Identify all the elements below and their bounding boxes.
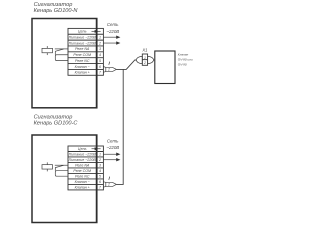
svg-text:Клапан −: Клапан − bbox=[75, 180, 90, 184]
box edge through terminal block bbox=[96, 135, 98, 223]
svg-text:Реле NA: Реле NA bbox=[75, 164, 90, 168]
svg-text:4: 4 bbox=[99, 169, 101, 173]
svg-text:1: 1 bbox=[144, 56, 146, 60]
terminal block XT (GD100-C) bbox=[68, 146, 103, 190]
svg-text:Питание ~220В: Питание ~220В bbox=[69, 153, 97, 157]
wire mains L2 bbox=[103, 159, 117, 161]
box edge through terminal block bbox=[96, 19, 98, 108]
svg-text:2: 2 bbox=[98, 158, 101, 162]
valve box GV-80/GV-90 bbox=[155, 51, 175, 84]
title GD100-C bbox=[34, 114, 79, 126]
svg-text:5: 5 bbox=[99, 59, 101, 63]
wire mains L1 bbox=[103, 36, 117, 38]
svg-text:2: 2 bbox=[107, 183, 110, 187]
relay coil K1 bbox=[42, 165, 53, 169]
connector X1 socket half bbox=[136, 56, 142, 63]
svg-text:Питание ~220В: Питание ~220В bbox=[69, 158, 97, 162]
relay contact (NA/COM/NC) bbox=[55, 49, 68, 61]
svg-text:4: 4 bbox=[99, 53, 101, 57]
wire bus from GD100-C cable bbox=[116, 69, 123, 184]
wire mains L2 bbox=[103, 42, 117, 44]
svg-text:2: 2 bbox=[107, 68, 110, 72]
svg-text:Питание ~220В: Питание ~220В bbox=[69, 41, 97, 45]
svg-text:3: 3 bbox=[99, 47, 101, 51]
valve wires merge (2-wire cable) bbox=[103, 177, 116, 188]
svg-text:Питание ~220В: Питание ~220В bbox=[69, 35, 97, 39]
svg-text:Кенарь GD100-N: Кенарь GD100-N bbox=[34, 8, 79, 14]
svg-text:Цепь: Цепь bbox=[78, 30, 87, 34]
svg-text:Сеть: Сеть bbox=[107, 22, 119, 27]
svg-text:GV-90: GV-90 bbox=[178, 62, 187, 66]
terminal block XT (GD100-N) bbox=[68, 28, 103, 75]
svg-text:Сигнализатор: Сигнализатор bbox=[34, 2, 73, 8]
svg-text:2: 2 bbox=[143, 61, 146, 65]
svg-text:2: 2 bbox=[98, 41, 101, 45]
svg-text:Клапан −: Клапан − bbox=[75, 65, 90, 69]
svg-text:6: 6 bbox=[99, 180, 101, 184]
wire mains L1 bbox=[103, 153, 117, 155]
signalizer box Кенарь GD100-N bbox=[32, 19, 97, 108]
mains label Сеть ~220В bbox=[106, 22, 119, 34]
wire cable to connector bbox=[116, 60, 136, 69]
svg-text:Реле COM: Реле COM bbox=[73, 169, 91, 173]
signalizer box Кенарь GD100-C bbox=[32, 135, 97, 223]
svg-text:Реле NA: Реле NA bbox=[75, 47, 90, 51]
connector X1 plug half bbox=[148, 56, 154, 63]
svg-text:Клапан +: Клапан + bbox=[75, 185, 90, 189]
relay coil K1 bbox=[42, 48, 53, 52]
svg-text:6: 6 bbox=[99, 65, 101, 69]
svg-text:~220В: ~220В bbox=[106, 29, 119, 34]
relay contact (NA/COM/NC) bbox=[55, 165, 68, 176]
svg-text:5: 5 bbox=[99, 175, 101, 179]
svg-text:Клапан: Клапан bbox=[178, 53, 189, 57]
header wire mark bbox=[92, 148, 101, 150]
svg-text:Клапан +: Клапан + bbox=[75, 71, 90, 75]
svg-text:Х1: Х1 bbox=[141, 48, 147, 53]
valve wires merge (2-wire cable) bbox=[103, 62, 116, 73]
wire to valve bbox=[154, 59, 155, 61]
svg-text:GV-80 или: GV-80 или bbox=[178, 58, 193, 62]
svg-text:Сигнализатор: Сигнализатор bbox=[34, 114, 73, 120]
svg-text:3: 3 bbox=[99, 164, 101, 168]
svg-text:1: 1 bbox=[99, 35, 101, 39]
svg-text:Цепь: Цепь bbox=[78, 147, 87, 151]
valve label bbox=[178, 53, 193, 67]
svg-text:Кенарь GD100-C: Кенарь GD100-C bbox=[34, 121, 79, 127]
svg-text:Реле COM: Реле COM bbox=[73, 53, 91, 57]
title GD100-N bbox=[34, 2, 79, 14]
svg-text:1: 1 bbox=[99, 153, 101, 157]
svg-text:Сеть: Сеть bbox=[107, 139, 119, 144]
svg-text:Реле NC: Реле NC bbox=[75, 59, 90, 63]
svg-text:Реле NC: Реле NC bbox=[75, 175, 90, 179]
connector X1 pin table bbox=[142, 54, 147, 65]
svg-text:~220В: ~220В bbox=[106, 145, 119, 150]
header wire mark bbox=[92, 30, 101, 32]
mains label Сеть ~220В bbox=[106, 139, 119, 150]
